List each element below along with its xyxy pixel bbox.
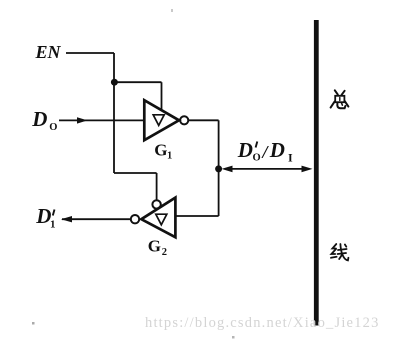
wire D'_1 output (62, 218, 131, 220)
svg-text:https://blog.csdn.net/Xiao_Jie: https://blog.csdn.net/Xiao_Jie123 (145, 315, 380, 331)
svg-text:D: D (31, 107, 47, 131)
G1 inner nabla symbol (153, 115, 164, 126)
arrowhead on D'_1 output (pointing left) (61, 216, 72, 222)
node B junction dot (215, 165, 222, 172)
svg-text:I: I (288, 151, 293, 165)
scan speck bottom-center (232, 336, 235, 339)
svg-text:1: 1 (50, 219, 56, 231)
bus label 总 (drawn glyph) (331, 90, 349, 108)
wire node A to G1 enable (horizontal) (114, 81, 162, 83)
scan speck left-bottom (32, 322, 35, 325)
label G2 (148, 236, 167, 257)
svg-text:O: O (49, 122, 57, 133)
wire G1 output (horizontal) (188, 119, 218, 121)
wire EN to node A (horizontal) (66, 52, 114, 54)
label D'_1 (35, 204, 55, 231)
G2 output bubble (131, 215, 139, 223)
node A junction dot (111, 79, 118, 86)
wire G1 enable (vertical into G1 top edge) (161, 82, 163, 110)
wire node A to G2 enable (horizontal) (114, 172, 157, 174)
wire node A vertical (EN down-line) (113, 53, 115, 173)
arrowhead left (pointing to node B) (222, 166, 233, 173)
svg-text:G: G (154, 140, 167, 159)
svg-text:D: D (269, 138, 285, 162)
scan speck top (171, 9, 173, 12)
svg-text:D: D (237, 138, 253, 162)
svg-text:EN: EN (35, 42, 62, 62)
wire D_O input (59, 119, 144, 121)
wire bottom (right vertical to G2 input) (176, 215, 219, 217)
label D_O (31, 107, 57, 133)
svg-text:G: G (148, 236, 161, 255)
tri-state inverter G1 (triangle) (144, 100, 179, 140)
arrowhead right (pointing to bus) (302, 166, 313, 173)
G2 inner nabla symbol (156, 214, 167, 225)
bus (thick vertical line) (314, 20, 319, 326)
G2 enable bubble (active-low) (152, 200, 160, 208)
bidirectional arrow node B to bus (227, 168, 305, 170)
wire G2 enable (vertical down to bubble) (156, 173, 158, 200)
svg-text:2: 2 (162, 247, 167, 258)
G1 output bubble (180, 116, 188, 124)
svg-text:/: / (261, 142, 270, 162)
svg-text:D: D (35, 204, 51, 228)
label D'_O / D_I (237, 138, 293, 165)
arrowhead on D_O input (pointing right) (77, 117, 88, 123)
bus label 线 (drawn glyph) (331, 244, 348, 260)
wire right vertical (G1 output down to G2 input) (218, 120, 220, 216)
svg-text:1: 1 (167, 150, 172, 161)
label G1 (154, 140, 172, 161)
svg-text:O: O (253, 153, 261, 164)
tri-state inverter G2 (triangle, pointing left) (141, 198, 175, 238)
